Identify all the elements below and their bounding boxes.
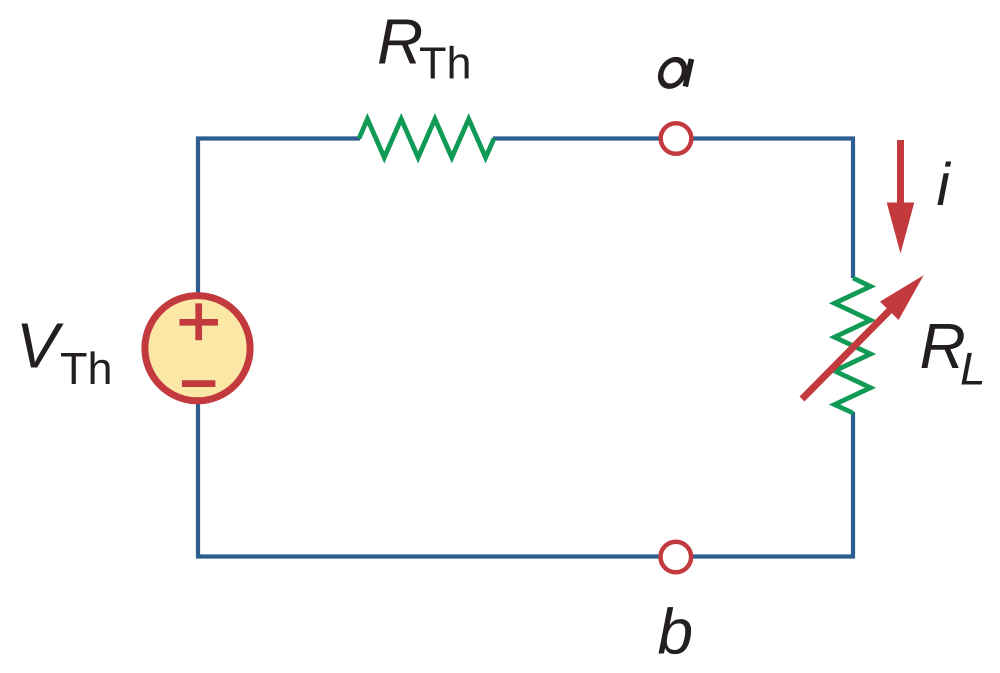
wire: top from resistor to top-right corner down to RL top (493, 139, 853, 279)
source plus sign (180, 303, 219, 340)
svg-text:R: R (377, 6, 423, 78)
node a (terminal circle) (661, 123, 692, 154)
resistor R_L (green zigzag, vertical) (835, 278, 871, 413)
source minus sign (182, 380, 216, 387)
current arrow i (red, downward) (897, 140, 904, 206)
svg-text:Th: Th (60, 343, 113, 394)
resistor R_Th (green zigzag, horizontal) (359, 119, 494, 158)
voltage source V_Th (circle) (145, 296, 250, 401)
wire: left vertical + top-left corner to resistor RTh (198, 139, 360, 295)
node b (terminal circle) (661, 542, 692, 573)
svg-text:V: V (16, 310, 64, 382)
svg-text:R: R (920, 310, 966, 382)
variable-resistor arrow (red diagonal through RL) (802, 309, 891, 399)
wire: RL bottom to bottom-right corner, bottom horizontal, to left bottom (198, 403, 853, 557)
svg-text:Th: Th (419, 38, 472, 89)
svg-text:b: b (658, 596, 694, 668)
label a (single-story italic a: bowl + slanted stem) (658, 59, 691, 87)
svg-text:L: L (960, 343, 986, 395)
svg-text:i: i (937, 151, 952, 218)
